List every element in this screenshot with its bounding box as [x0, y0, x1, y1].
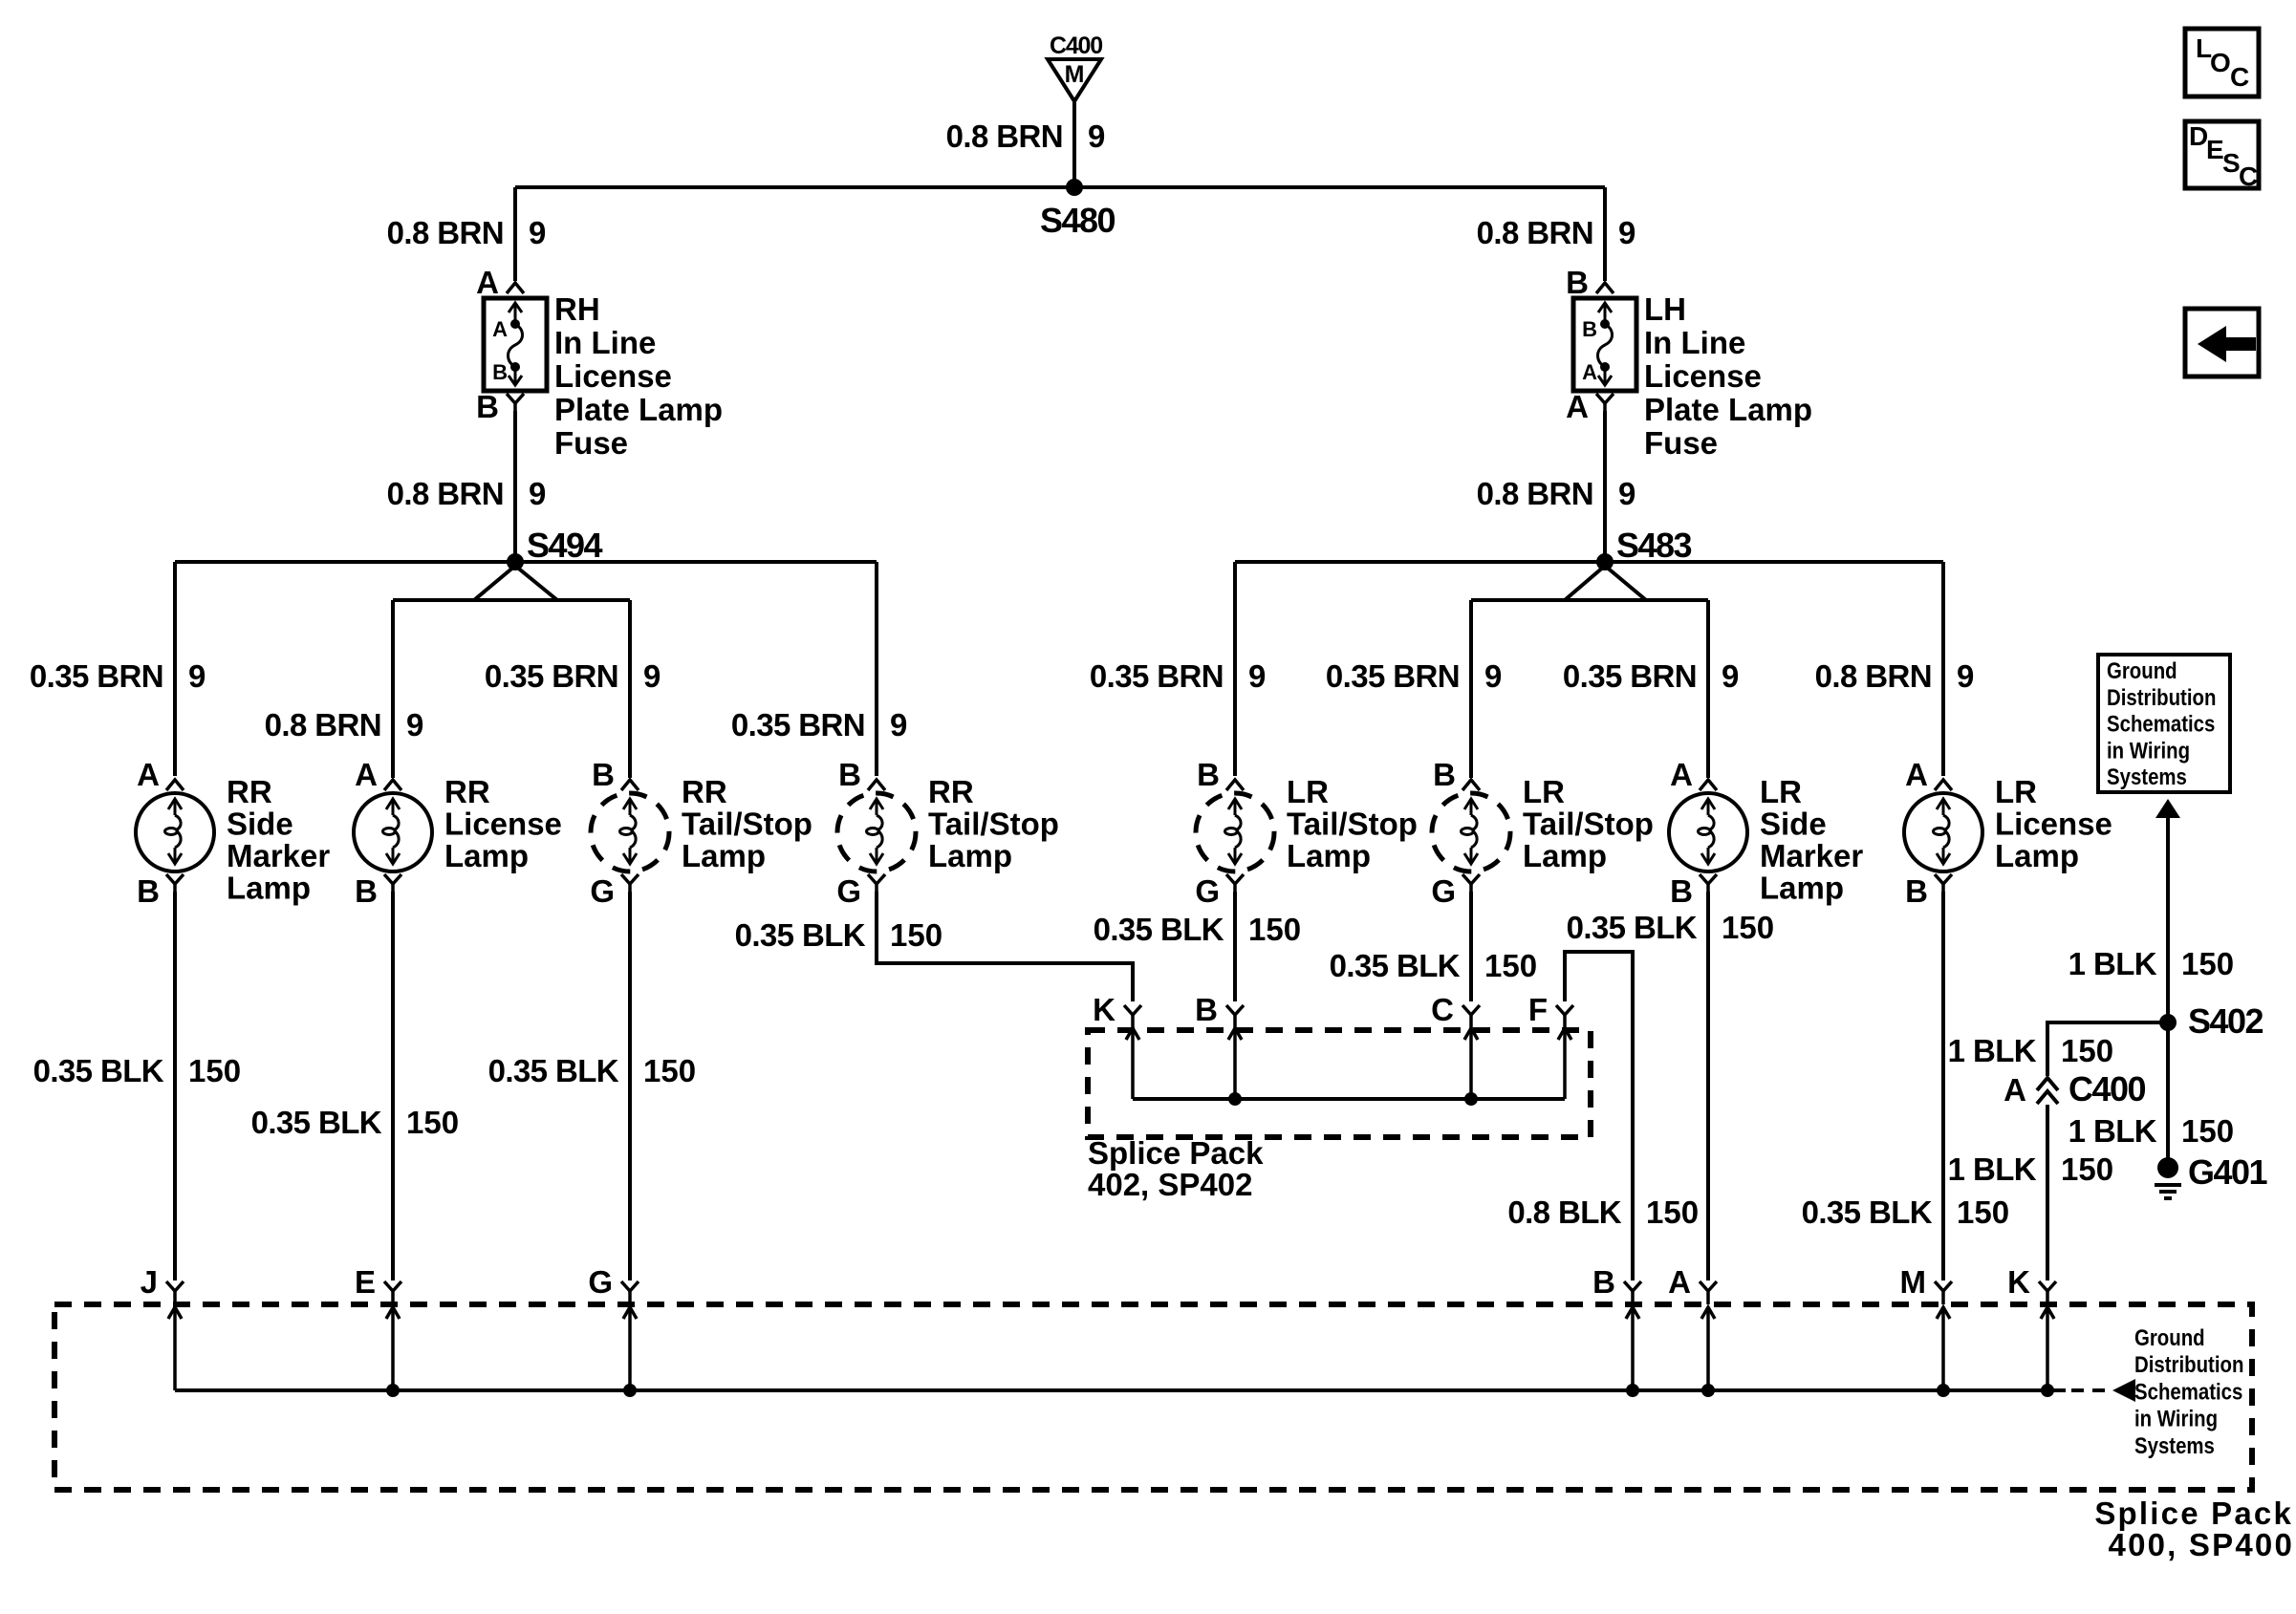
- svg-text:A: A: [1668, 1264, 1691, 1300]
- svg-text:A: A: [1566, 389, 1589, 424]
- arrow up into ground distribution box: [2155, 799, 2180, 818]
- wire label 0.8 BRN 9 (C400 feed): [946, 118, 1106, 154]
- svg-text:Systems: Systems: [2134, 1432, 2215, 1458]
- svg-text:LR: LR: [1523, 774, 1565, 809]
- wire S480 horizontal bus: [515, 185, 1605, 189]
- connector C400 (to body harness, triangle M symbol): [1048, 32, 1102, 101]
- fuse LH In Line License Plate Lamp Fuse: [1566, 265, 1812, 461]
- svg-text:S480: S480: [1040, 201, 1116, 240]
- svg-text:150: 150: [643, 1053, 696, 1088]
- svg-text:0.35 BLK: 0.35 BLK: [1330, 948, 1461, 983]
- svg-text:150: 150: [890, 917, 942, 953]
- connector C400 (pin A, double chevron): [2004, 1069, 2145, 1108]
- svg-text:9: 9: [529, 476, 546, 511]
- svg-text:License: License: [1995, 807, 2112, 842]
- wire label 0.35 BRN 9 (LR tail/stop 2): [1326, 658, 1502, 694]
- svg-text:Marker: Marker: [1760, 838, 1863, 873]
- ground G401: [2155, 1152, 2268, 1198]
- wire label 0.35 BLK 150 (RR tail/stop 1 gnd): [488, 1053, 696, 1088]
- wire label 0.35 BLK 150 (LR tail/stop 2 gnd): [1330, 948, 1537, 983]
- wire RR tail/stop 1 ground to SP400 G: [628, 892, 632, 1280]
- legend DESC box: [2185, 121, 2259, 191]
- svg-text:Systems: Systems: [2107, 764, 2187, 789]
- SP402 pin B: [1195, 992, 1244, 1099]
- legend back-arrow box: [2185, 309, 2259, 377]
- wire label 0.35 BRN 9 (RR tail/stop 2): [731, 707, 907, 742]
- wire label 0.35 BLK 150 (RR side marker gnd): [33, 1053, 241, 1088]
- svg-text:Ground: Ground: [2107, 657, 2177, 683]
- svg-text:0.8 BRN: 0.8 BRN: [1477, 215, 1593, 250]
- SP402 pin K: [1093, 992, 1141, 1099]
- svg-text:0.35 BRN: 0.35 BRN: [1326, 658, 1460, 694]
- svg-text:0.35 BLK: 0.35 BLK: [33, 1053, 164, 1088]
- SP402 bus junction at C: [1464, 1092, 1478, 1106]
- SP400 bus dashed continuation: [2071, 1388, 2109, 1392]
- svg-text:1 BLK: 1 BLK: [1948, 1151, 2037, 1187]
- svg-text:Lamp: Lamp: [682, 838, 766, 873]
- SP400 pin A: [1668, 1264, 1717, 1390]
- svg-text:K: K: [1093, 992, 1116, 1027]
- svg-text:B: B: [492, 360, 508, 384]
- svg-text:Splice Pack: Splice Pack: [1088, 1135, 1264, 1171]
- svg-text:Distribution: Distribution: [2134, 1352, 2243, 1378]
- svg-text:A: A: [1905, 757, 1928, 792]
- legend LOC box: [2185, 29, 2259, 97]
- svg-text:F: F: [1528, 992, 1548, 1027]
- svg-text:9: 9: [1618, 476, 1635, 511]
- svg-text:9: 9: [188, 658, 206, 694]
- wire SP402 F to SP400 B: [1565, 952, 1633, 1280]
- svg-text:B: B: [838, 757, 861, 792]
- splice pack SP402 dashed box: [1088, 1030, 1591, 1137]
- svg-text:9: 9: [890, 707, 907, 742]
- svg-text:B: B: [592, 757, 615, 792]
- SP400 internal bus: [175, 1388, 2066, 1392]
- svg-text:1 BLK: 1 BLK: [2069, 946, 2157, 981]
- svg-text:Side: Side: [1760, 807, 1827, 842]
- wire label 0.35 BRN 9 (LR side marker): [1563, 658, 1739, 694]
- wire label 0.8 BRN 9 (LH fuse out): [1477, 476, 1636, 511]
- node S480: [1040, 179, 1116, 240]
- node S494: [507, 526, 603, 570]
- wire drop to LR tail/stop lamp 1: [1233, 562, 1237, 776]
- svg-text:Distribution: Distribution: [2107, 684, 2216, 710]
- wire label 0.35 BLK 150 (LR tail/stop 1 gnd): [1094, 912, 1301, 947]
- SP400 pin M: [1900, 1264, 1953, 1390]
- svg-text:0.35 BLK: 0.35 BLK: [1094, 912, 1224, 947]
- wire label 1 BLK 150 (above C400): [1948, 1033, 2113, 1068]
- ground distribution schematics note (bottom right): [2134, 1324, 2243, 1458]
- svg-text:G: G: [1195, 873, 1220, 909]
- svg-text:G: G: [836, 873, 861, 909]
- svg-text:A: A: [137, 757, 160, 792]
- svg-text:0.8 BRN: 0.8 BRN: [1477, 476, 1593, 511]
- svg-text:Lamp: Lamp: [1523, 838, 1607, 873]
- svg-text:M: M: [1065, 61, 1085, 88]
- svg-text:Tail/Stop: Tail/Stop: [928, 807, 1059, 842]
- svg-text:B: B: [1592, 1264, 1615, 1300]
- wire S480 to LH fuse pin B: [1603, 187, 1607, 281]
- svg-text:Tail/Stop: Tail/Stop: [1523, 807, 1654, 842]
- svg-text:M: M: [1900, 1264, 1927, 1300]
- wire S480 to RH fuse pin A: [513, 187, 517, 281]
- wire LR side marker ground to SP400 A: [1706, 892, 1710, 1280]
- svg-text:150: 150: [2181, 1113, 2234, 1149]
- lamp RR Side Marker Lamp: [136, 757, 330, 909]
- svg-text:Splice Pack: Splice Pack: [2094, 1496, 2293, 1531]
- svg-text:0.8 BRN: 0.8 BRN: [387, 476, 504, 511]
- label Splice Pack 400, SP400: [2094, 1496, 2294, 1562]
- lamp RR Tail/Stop Lamp 1: [590, 757, 812, 909]
- wire S483 horizontal bus: [1235, 560, 1943, 564]
- svg-text:9: 9: [1248, 658, 1266, 694]
- svg-text:License: License: [1644, 358, 1762, 394]
- SP402 internal bus: [1133, 1097, 1565, 1101]
- svg-text:RR: RR: [682, 774, 727, 809]
- wire RR side marker ground to SP400 J: [173, 892, 177, 1280]
- wire LH fuse pin A to S483: [1603, 411, 1607, 562]
- svg-text:9: 9: [643, 658, 661, 694]
- wire LR tail/stop 1 ground to SP402 B: [1233, 892, 1237, 1001]
- svg-text:400, SP400: 400, SP400: [2109, 1527, 2294, 1562]
- lamp RR License Lamp: [354, 757, 562, 909]
- SP400 pin K: [2007, 1264, 2056, 1390]
- wire label 0.8 BRN 9 (RH fuse feed): [387, 215, 547, 250]
- svg-text:LR: LR: [1995, 774, 2037, 809]
- SP400 pin B: [1592, 1264, 1641, 1390]
- svg-text:C400: C400: [2069, 1069, 2146, 1108]
- svg-text:C400: C400: [1050, 32, 1102, 59]
- svg-text:Schematics: Schematics: [2134, 1379, 2242, 1405]
- svg-text:A: A: [355, 757, 378, 792]
- svg-text:150: 150: [2061, 1151, 2113, 1187]
- SP400 pin E: [355, 1264, 401, 1390]
- svg-text:A: A: [1670, 757, 1693, 792]
- wire label 0.35 BLK 150 (RR license gnd): [251, 1105, 459, 1140]
- svg-text:0.35 BLK: 0.35 BLK: [488, 1053, 619, 1088]
- svg-text:0.8 BRN: 0.8 BRN: [387, 215, 504, 250]
- svg-text:150: 150: [1957, 1194, 2009, 1230]
- svg-text:9: 9: [406, 707, 423, 742]
- svg-text:150: 150: [406, 1105, 459, 1140]
- svg-text:S402: S402: [2188, 1001, 2264, 1041]
- svg-text:0.8 BLK: 0.8 BLK: [1507, 1194, 1621, 1230]
- svg-text:B: B: [1566, 265, 1589, 300]
- svg-text:Marker: Marker: [227, 838, 330, 873]
- svg-text:E: E: [2206, 135, 2224, 164]
- wire from arrow down to S402: [2166, 816, 2170, 1022]
- svg-text:LR: LR: [1760, 774, 1802, 809]
- wire S402 down to G401: [2166, 1022, 2170, 1161]
- svg-text:S494: S494: [527, 526, 603, 565]
- svg-text:S: S: [2222, 148, 2241, 178]
- label Splice Pack 402, SP402: [1088, 1135, 1264, 1202]
- svg-text:0.35 BLK: 0.35 BLK: [1802, 1194, 1933, 1230]
- svg-text:LR: LR: [1287, 774, 1329, 809]
- svg-text:O: O: [2210, 48, 2231, 77]
- svg-text:S483: S483: [1616, 526, 1692, 565]
- wire label 0.8 BRN 9 (RR license): [265, 707, 424, 742]
- svg-text:Lamp: Lamp: [1995, 838, 2079, 873]
- svg-text:C: C: [2239, 161, 2258, 191]
- svg-text:LH: LH: [1644, 291, 1686, 327]
- svg-text:0.35 BLK: 0.35 BLK: [1567, 910, 1698, 945]
- lamp LR Tail/Stop Lamp 2: [1431, 757, 1654, 909]
- wire label 0.8 BRN 9 (RH fuse out): [387, 476, 547, 511]
- svg-text:150: 150: [1722, 910, 1774, 945]
- wire label 1 BLK 150 (below C400): [1948, 1151, 2113, 1187]
- svg-text:0.35 BRN: 0.35 BRN: [1090, 658, 1224, 694]
- SP400 bus junction at x=1708: [1626, 1384, 1639, 1397]
- svg-text:9: 9: [1088, 118, 1105, 154]
- svg-text:G: G: [590, 873, 615, 909]
- svg-text:G: G: [588, 1264, 613, 1300]
- svg-text:9: 9: [1484, 658, 1502, 694]
- svg-text:B: B: [1197, 757, 1220, 792]
- fuse RH In Line License Plate Lamp Fuse: [476, 265, 723, 461]
- svg-text:Lamp: Lamp: [1760, 871, 1844, 906]
- svg-text:402, SP402: 402, SP402: [1088, 1167, 1252, 1202]
- SP402 bus junction at B: [1228, 1092, 1242, 1106]
- svg-text:150: 150: [2181, 946, 2234, 981]
- svg-text:1 BLK: 1 BLK: [1948, 1033, 2037, 1068]
- svg-text:B: B: [1905, 873, 1928, 909]
- svg-text:Side: Side: [227, 807, 293, 842]
- svg-text:B: B: [1670, 873, 1693, 909]
- lamp LR License Lamp: [1904, 757, 2112, 909]
- svg-text:150: 150: [1248, 912, 1301, 947]
- svg-text:K: K: [2007, 1264, 2030, 1300]
- svg-text:in Wiring: in Wiring: [2107, 738, 2190, 764]
- svg-text:B: B: [1433, 757, 1456, 792]
- wire drop to RR tail/stop lamp 2: [875, 562, 878, 776]
- svg-text:9: 9: [1618, 215, 1635, 250]
- wire S494 horizontal bus: [175, 560, 877, 564]
- svg-text:A: A: [476, 265, 499, 300]
- svg-text:Lamp: Lamp: [227, 871, 311, 906]
- svg-text:9: 9: [1722, 658, 1739, 694]
- svg-text:in Wiring: in Wiring: [2134, 1406, 2218, 1431]
- svg-text:0.35 BRN: 0.35 BRN: [731, 707, 865, 742]
- svg-text:0.35 BLK: 0.35 BLK: [735, 917, 866, 953]
- svg-text:150: 150: [1646, 1194, 1699, 1230]
- SP400 pin G: [588, 1264, 639, 1390]
- SP400 bus junction at x=411: [386, 1384, 400, 1397]
- svg-text:B: B: [1195, 992, 1218, 1027]
- SP400 pin J: [141, 1264, 184, 1390]
- node S402: [2159, 1001, 2264, 1041]
- wire label 0.8 BRN 9 (LH fuse feed): [1477, 215, 1636, 250]
- wire S402 branch to C400: [2047, 1022, 2168, 1076]
- svg-text:150: 150: [1484, 948, 1537, 983]
- svg-text:RR: RR: [444, 774, 490, 809]
- svg-text:G: G: [1431, 873, 1456, 909]
- svg-text:B: B: [1582, 317, 1597, 341]
- wire LR license ground to SP400 M: [1941, 892, 1945, 1280]
- svg-text:Ground: Ground: [2134, 1324, 2205, 1350]
- svg-text:Fuse: Fuse: [554, 425, 628, 461]
- SP400 bus junction at x=659: [623, 1384, 637, 1397]
- wire from C400 down to S480: [1072, 101, 1076, 187]
- svg-text:150: 150: [188, 1053, 241, 1088]
- svg-text:Schematics: Schematics: [2107, 711, 2215, 737]
- lamp RR Tail/Stop Lamp 2: [836, 757, 1059, 909]
- svg-text:Plate Lamp: Plate Lamp: [554, 392, 723, 427]
- svg-text:J: J: [141, 1264, 158, 1300]
- svg-text:Fuse: Fuse: [1644, 425, 1718, 461]
- svg-text:C: C: [1431, 992, 1454, 1027]
- SP400 bus junction at x=2142: [2041, 1384, 2054, 1397]
- wire S494 branch diagonals and rail: [393, 566, 630, 778]
- wire drop to LR license lamp: [1941, 562, 1945, 776]
- svg-text:0.8 BRN: 0.8 BRN: [946, 118, 1063, 154]
- svg-text:9: 9: [1957, 658, 1974, 694]
- svg-text:Plate Lamp: Plate Lamp: [1644, 392, 1812, 427]
- SP400 bus arrowhead (off-page, left pointing): [2112, 1379, 2135, 1402]
- svg-text:A: A: [492, 317, 508, 341]
- wire label 0.35 BLK 150 (RR tail/stop 2 gnd): [735, 917, 942, 953]
- wire label 0.35 BRN 9 (RR side marker): [30, 658, 206, 694]
- lamp LR Side Marker Lamp: [1669, 757, 1863, 909]
- wire S483 branch diagonals and rail: [1471, 566, 1708, 778]
- svg-text:Lamp: Lamp: [1287, 838, 1371, 873]
- svg-text:0.35 BRN: 0.35 BRN: [485, 658, 618, 694]
- svg-text:B: B: [355, 873, 378, 909]
- wire RR license ground to SP400 E: [391, 892, 395, 1280]
- svg-text:0.35 BRN: 0.35 BRN: [1563, 658, 1697, 694]
- svg-text:0.35 BLK: 0.35 BLK: [251, 1105, 382, 1140]
- svg-text:1 BLK: 1 BLK: [2069, 1113, 2157, 1149]
- wire label 0.35 BLK 150 (LR side marker gnd): [1567, 910, 1774, 945]
- svg-text:In Line: In Line: [554, 325, 656, 360]
- svg-text:0.8 BRN: 0.8 BRN: [265, 707, 381, 742]
- svg-text:License: License: [554, 358, 672, 394]
- wire label 0.8 BRN 9 (LR license): [1815, 658, 1975, 694]
- wire label 1 BLK 150 (above S402): [2069, 946, 2234, 981]
- SP402 pin F: [1528, 992, 1573, 1099]
- svg-text:Lamp: Lamp: [928, 838, 1012, 873]
- svg-text:RH: RH: [554, 291, 600, 327]
- svg-text:0.35 BRN: 0.35 BRN: [30, 658, 163, 694]
- wire RR tail/stop 2 ground to SP402 K: [877, 892, 1133, 1001]
- svg-text:C: C: [2230, 62, 2249, 92]
- wire label 1 BLK 150 (to G401): [2069, 1113, 2234, 1149]
- wire LR tail/stop 2 ground to SP402 C: [1469, 892, 1473, 1001]
- svg-text:Tail/Stop: Tail/Stop: [1287, 807, 1418, 842]
- svg-text:150: 150: [2061, 1033, 2113, 1068]
- wire drop to RR side marker lamp: [173, 562, 177, 776]
- svg-text:Lamp: Lamp: [444, 838, 529, 873]
- wire label 0.35 BRN 9 (LR tail/stop 1): [1090, 658, 1266, 694]
- svg-text:A: A: [1582, 360, 1597, 384]
- svg-text:B: B: [476, 389, 499, 424]
- wire label 0.35 BRN 9 (RR tail/stop 1): [485, 658, 661, 694]
- svg-text:In Line: In Line: [1644, 325, 1745, 360]
- svg-text:License: License: [444, 807, 562, 842]
- svg-text:RR: RR: [928, 774, 974, 809]
- splice pack SP400 dashed box: [54, 1304, 2252, 1490]
- ground distribution schematics reference box (top right): [2098, 655, 2230, 792]
- svg-text:E: E: [355, 1264, 376, 1300]
- SP400 bus junction at x=2033: [1937, 1384, 1950, 1397]
- SP400 bus junction at x=1787: [1701, 1384, 1715, 1397]
- SP402 pin C: [1431, 992, 1480, 1099]
- svg-text:B: B: [137, 873, 160, 909]
- svg-text:9: 9: [529, 215, 546, 250]
- wire label 0.8 BLK 150 (SP402 F to SP400 B): [1507, 1194, 1699, 1230]
- node S483: [1596, 526, 1692, 570]
- lamp LR Tail/Stop Lamp 1: [1195, 757, 1418, 909]
- svg-text:0.8 BRN: 0.8 BRN: [1815, 658, 1932, 694]
- wire C400 pin A down to SP400 K: [2046, 1105, 2049, 1280]
- wire RH fuse pin B to S494: [513, 411, 517, 562]
- svg-text:RR: RR: [227, 774, 272, 809]
- wire label 0.35 BLK 150 (LR license gnd): [1802, 1194, 2009, 1230]
- svg-text:Tail/Stop: Tail/Stop: [682, 807, 812, 842]
- svg-text:G401: G401: [2188, 1152, 2268, 1192]
- svg-text:A: A: [2004, 1072, 2026, 1108]
